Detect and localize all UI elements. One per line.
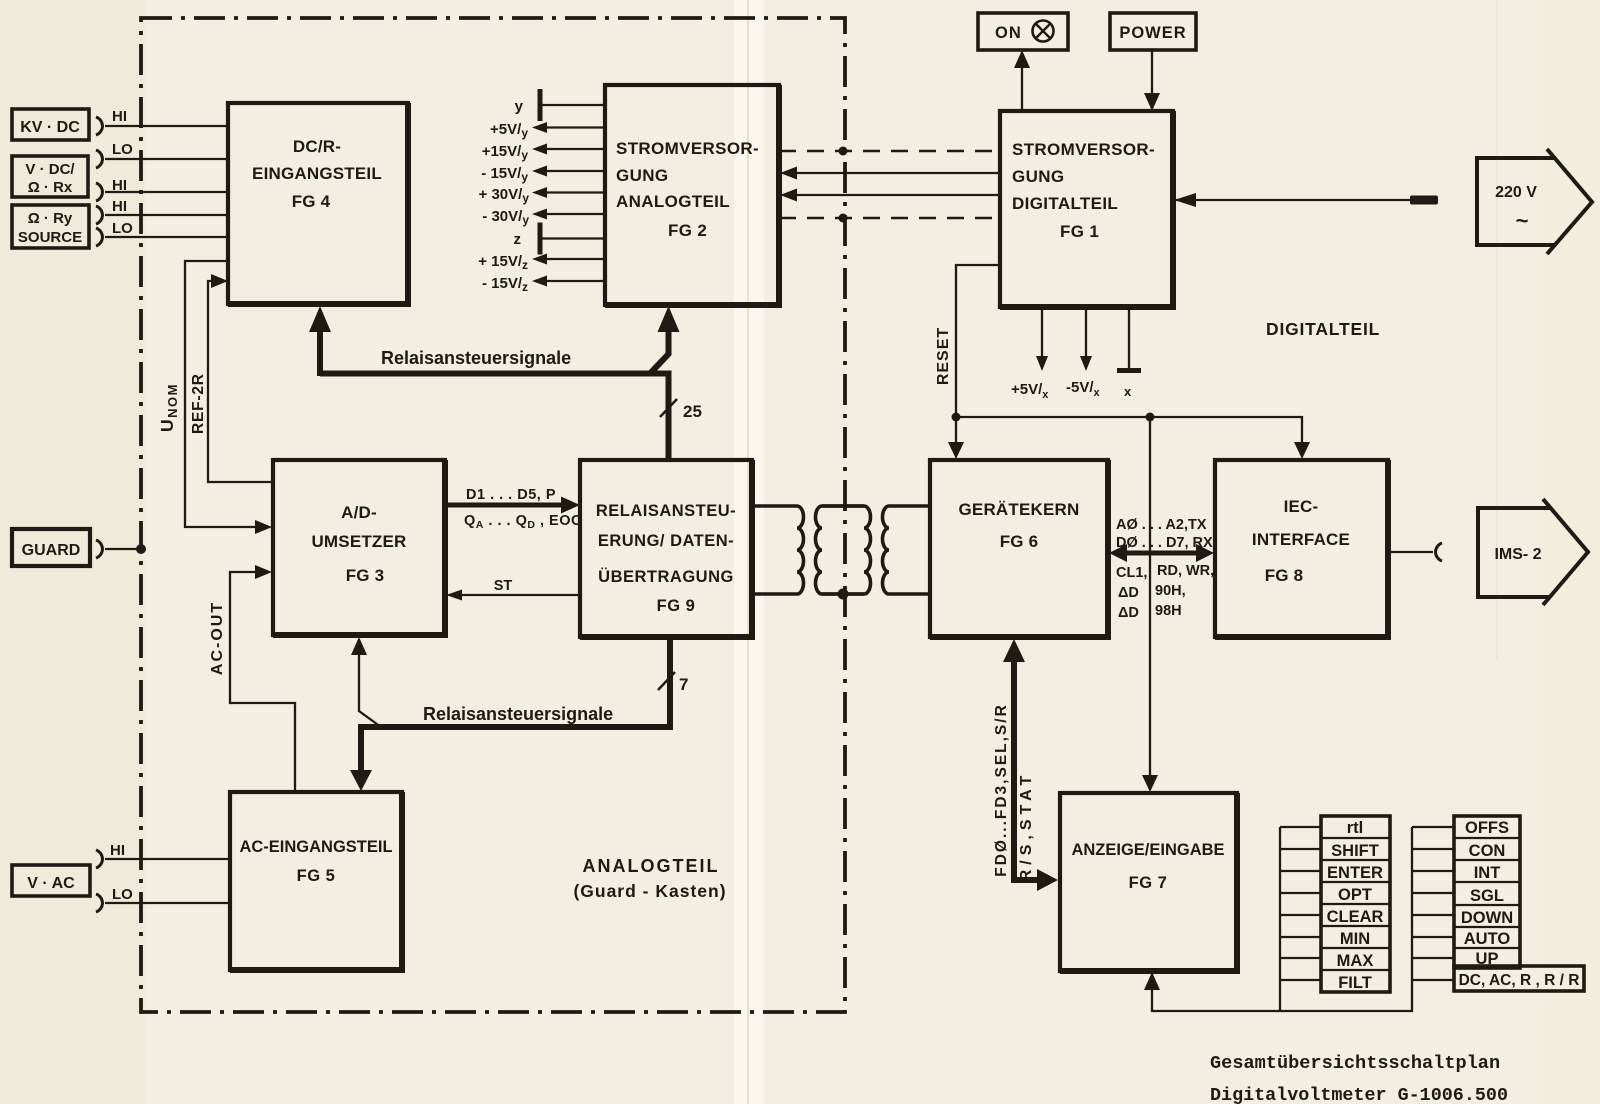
svg-text:IMS- 2: IMS- 2 (1494, 546, 1541, 563)
svg-text:KV · DC: KV · DC (20, 119, 80, 136)
block FG3 A/D-Umsetzer (273, 460, 445, 635)
svg-text:DIGITALTEIL: DIGITALTEIL (1266, 319, 1380, 339)
svg-text:rtl: rtl (1347, 819, 1364, 837)
svg-text:ANZEIGE/EINGABE: ANZEIGE/EINGABE (1071, 841, 1224, 859)
wire POWER to FG1 (1144, 50, 1160, 111)
wire V.AC LO to FG5 with socket (96, 886, 230, 912)
svg-text:V · DC/: V · DC/ (25, 161, 75, 178)
svg-text:A/D-: A/D- (341, 503, 377, 522)
wire FG7 bottom to key matrix buses (1144, 827, 1412, 1011)
FG2 terminal +15V/y (482, 143, 605, 162)
bus width slash 7 (658, 672, 688, 694)
svg-text:ERUNG/ DATEN-: ERUNG/ DATEN- (598, 532, 734, 550)
svg-text:CON: CON (1469, 842, 1506, 860)
svg-text:INTERFACE: INTERFACE (1252, 530, 1350, 549)
connector label box Ohm.Ry SOURCE (12, 205, 89, 248)
svg-text:Digitalvoltmeter G-1006.500: Digitalvoltmeter G-1006.500 (1210, 1085, 1508, 1104)
svg-text:GERÄTEKERN: GERÄTEKERN (958, 500, 1079, 519)
svg-text:DC, AC, R , R / R: DC, AC, R , R / R (1459, 972, 1580, 989)
POWER box (1110, 13, 1196, 50)
svg-text:GUNG: GUNG (616, 166, 668, 185)
svg-text:R/S,STAT: R/S,STAT (1018, 771, 1035, 882)
connector label box GUARD (12, 529, 90, 566)
svg-text:FG 1: FG 1 (1060, 222, 1099, 241)
block FG5 AC-Eingangsteil (230, 792, 402, 970)
svg-text:D1 . . . D5, P: D1 . . . D5, P (466, 487, 556, 503)
svg-text:ANALOGTEIL: ANALOGTEIL (583, 856, 720, 876)
svg-text:FG 9: FG 9 (657, 597, 696, 615)
svg-text:AØ . . . A2,TX: AØ . . . A2,TX (1116, 517, 1207, 533)
block FG4 DC/R-Eingangsteil (228, 103, 408, 304)
svg-text:25: 25 (683, 402, 702, 421)
svg-text:SGL: SGL (1470, 887, 1504, 905)
svg-text:Gesamtübersichtsschaltplan: Gesamtübersichtsschaltplan (1210, 1053, 1500, 1074)
winding 1 primary (752, 506, 804, 594)
svg-text:DIGITALTEIL: DIGITALTEIL (1012, 194, 1118, 213)
svg-text:OPT: OPT (1338, 886, 1372, 904)
svg-text:OFFS: OFFS (1465, 819, 1509, 837)
wire KV.DC HI to FG4 with socket (96, 108, 228, 135)
svg-text:GUNG: GUNG (1012, 167, 1064, 186)
svg-text:HI: HI (110, 842, 125, 859)
svg-text:INT: INT (1474, 864, 1501, 882)
FG1 output x with bar (1117, 307, 1141, 399)
block FG2 Stromversorgung Analogteil (605, 85, 779, 305)
wire Ry HI to FG4 with socket (96, 198, 228, 224)
wire IMS-2 from FG8 with socket (1388, 543, 1442, 561)
caption title (1210, 1053, 1508, 1104)
svg-text:STROMVERSOR-: STROMVERSOR- (1012, 140, 1155, 159)
svg-text:FG 5: FG 5 (297, 867, 336, 885)
svg-text:FG 2: FG 2 (668, 221, 707, 240)
indicator ON lamp box (978, 13, 1068, 50)
svg-text:AUTO: AUTO (1464, 930, 1511, 948)
svg-text:z: z (514, 231, 522, 248)
solid link FG1 to FG2 (arrow) 2 (780, 189, 1000, 202)
block FG7 Anzeige/Eingabe (1060, 793, 1237, 971)
svg-text:Ω · Rx: Ω · Rx (28, 179, 73, 196)
wire REF-2R from FG3 to FG4 (190, 274, 273, 482)
svg-text:CL1,: CL1, (1116, 565, 1147, 581)
FG2 terminal y with T-bar (515, 89, 605, 121)
data bus FG6 to FG8 bidirectional (1109, 544, 1214, 562)
svg-text:HI: HI (112, 198, 127, 215)
svg-text:SOURCE: SOURCE (18, 229, 82, 246)
block FG9 Relaisansteuerung/Datenuebertragung (580, 460, 752, 637)
svg-text:(Guard - Kasten): (Guard - Kasten) (573, 881, 726, 901)
svg-text:LO: LO (112, 220, 133, 237)
wire reset branch to FG8 (956, 417, 1310, 459)
bus width slash 25 (660, 399, 702, 421)
wire AC-OUT from FG5 to FG3 (209, 565, 295, 792)
key column right stubs (1412, 827, 1454, 980)
svg-text:GUARD: GUARD (22, 542, 81, 559)
svg-text:SHIFT: SHIFT (1331, 842, 1379, 860)
FG2 terminal +30V/y (479, 186, 605, 205)
svg-text:FILT: FILT (1338, 974, 1372, 992)
svg-text:FG 7: FG 7 (1129, 874, 1168, 892)
svg-text:ENTER: ENTER (1327, 864, 1383, 882)
bus interface symbol IMS-2 (1478, 499, 1588, 605)
wire branch down to FG7 top (1142, 413, 1158, 793)
svg-text:Relaisansteuersignale: Relaisansteuersignale (381, 348, 571, 368)
guard boundary (dash-dot border of Analogteil) (141, 18, 845, 1012)
winding 2 secondary (816, 506, 865, 594)
svg-text:HI: HI (112, 177, 127, 194)
svg-text:FG 3: FG 3 (346, 566, 385, 585)
svg-text:ANALOGTEIL: ANALOGTEIL (616, 192, 730, 211)
svg-text:7: 7 (679, 675, 688, 694)
FG2 terminal +15V/z (478, 253, 605, 272)
svg-text:- 30V/y: - 30V/y (482, 208, 529, 227)
FG2 terminal z with T-bar (514, 223, 606, 255)
wire RESET from FG1 to FG6 (935, 265, 998, 459)
wire FG1 to ON lamp (1014, 50, 1030, 111)
wire SOURCE LO to FG4 with socket (96, 220, 228, 246)
svg-text:y: y (515, 98, 524, 115)
svg-text:DOWN: DOWN (1461, 909, 1513, 927)
svg-text:EINGANGSTEIL: EINGANGSTEIL (252, 164, 382, 183)
mains symbol 220 V (1477, 149, 1592, 254)
svg-text:ΔD: ΔD (1118, 605, 1139, 621)
wire V.AC HI to FG5 with socket (96, 842, 230, 868)
connector label box V.AC (12, 865, 90, 896)
svg-text:STROMVERSOR-: STROMVERSOR- (616, 139, 759, 158)
relay control bus bottom (FG9 to FG5) (350, 637, 673, 791)
FG1 output +5V/x (1011, 307, 1049, 401)
svg-text:220 V: 220 V (1495, 184, 1537, 201)
svg-text:V · AC: V · AC (27, 875, 75, 892)
relay control bus top (FG9 to FG2 and FG4) (309, 306, 680, 460)
wire GUARD to guard boundary (96, 540, 146, 558)
svg-text:98H: 98H (1155, 603, 1182, 619)
solid link FG1 to FG2 (arrow) (780, 167, 1000, 180)
svg-text:RELAISANSTEU-: RELAISANSTEU- (596, 502, 736, 520)
svg-text:FDØ...FD3,SEL,S/R: FDØ...FD3,SEL,S/R (993, 703, 1010, 877)
svg-text:FG 6: FG 6 (1000, 532, 1039, 551)
FG2 terminal -15V/z (482, 275, 605, 294)
svg-text:LO: LO (112, 886, 133, 903)
svg-text:RESET: RESET (935, 327, 952, 385)
guard junction dot (838, 589, 849, 600)
key column left outer box (1321, 816, 1390, 992)
bus labels CL1 RD WR addresses (1116, 563, 1214, 621)
FG2 terminal +5V/y (490, 121, 605, 140)
bus labels A0...A2,TX D0...D7,RX (1116, 517, 1213, 551)
wire U_NOM from FG4 to FG3 (157, 261, 272, 534)
data bus D1..D5 from FG3 to FG9 (445, 487, 582, 531)
svg-text:90H,: 90H, (1155, 583, 1186, 599)
connector label box V.DC / Ohm.Rx (12, 156, 88, 197)
FG2 terminal -30V/y (482, 208, 605, 227)
transformer link FG9 to FG6 (752, 506, 930, 600)
svg-text:CLEAR: CLEAR (1327, 908, 1384, 926)
svg-text:Relaisansteuersignale: Relaisansteuersignale (423, 704, 613, 724)
dashed link FG1 to FG2 (bottom) with guard junction (779, 214, 1000, 223)
block FG6 Geraetekern (930, 460, 1108, 637)
svg-text:AC-OUT: AC-OUT (209, 601, 226, 675)
svg-text:IEC-: IEC- (1284, 497, 1319, 516)
FG1 output -5V/x (1066, 307, 1101, 399)
branch wire to FG3 bottom (351, 637, 381, 727)
svg-text:+ 30V/y: + 30V/y (479, 186, 530, 205)
svg-text:ST: ST (494, 578, 513, 594)
svg-text:ON: ON (995, 24, 1022, 42)
svg-text:REF-2R: REF-2R (190, 373, 207, 434)
svg-text:FG 4: FG 4 (292, 192, 331, 211)
winding 3 primary (822, 506, 871, 594)
wire ST from FG9 to FG3 (446, 578, 580, 601)
svg-text:MAX: MAX (1337, 952, 1374, 970)
svg-text:DØ . . . D7, RX: DØ . . . D7, RX (1116, 535, 1213, 551)
svg-text:HI: HI (112, 108, 127, 125)
svg-text:MIN: MIN (1340, 930, 1370, 948)
svg-text:Ω · Ry: Ω · Ry (28, 210, 73, 227)
svg-text:RD, WR,: RD, WR, (1157, 563, 1214, 579)
wire V.DC HI to FG4 with socket (96, 177, 228, 201)
svg-text:~: ~ (1516, 208, 1529, 233)
svg-text:AC-EINGANGSTEIL: AC-EINGANGSTEIL (239, 838, 392, 856)
wire LO to FG4 with socket (96, 141, 228, 168)
svg-text:ΔD: ΔD (1118, 585, 1139, 601)
winding 4 secondary (883, 506, 930, 594)
svg-text:ÜBERTRAGUNG: ÜBERTRAGUNG (598, 567, 734, 586)
svg-text:UMSETZER: UMSETZER (311, 532, 406, 551)
svg-text:- 15V/y: - 15V/y (481, 165, 528, 184)
FG2 terminal -15V/y (481, 165, 605, 184)
block FG1 Stromversorgung Digitalteil (1000, 111, 1173, 307)
svg-text:+ 15V/z: + 15V/z (478, 253, 528, 272)
key box DC,AC,R,R/R (1454, 966, 1584, 991)
label ANALOGTEIL (Guard-Kasten) (573, 856, 726, 901)
svg-text:- 15V/z: - 15V/z (482, 275, 528, 294)
key column right outer box (1454, 816, 1520, 968)
dashed link FG1 to FG2 (top) with guard junction (779, 147, 1000, 156)
key column left stubs (1280, 827, 1321, 980)
svg-text:LO: LO (112, 141, 133, 158)
mains wire 220V to FG1 with plug (1174, 193, 1438, 207)
svg-text:POWER: POWER (1119, 24, 1186, 42)
connector label box KV.DC (12, 109, 89, 140)
svg-text:FG 8: FG 8 (1265, 566, 1304, 585)
svg-text:x: x (1124, 384, 1132, 399)
block FG8 IEC-Interface (1215, 460, 1388, 637)
keyboard bus FG6 to FG7 (993, 639, 1058, 891)
svg-text:DC/R-: DC/R- (293, 137, 341, 156)
